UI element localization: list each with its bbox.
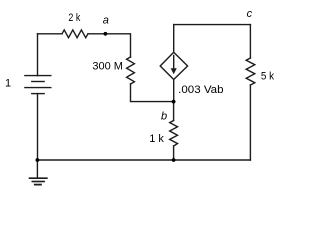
svg-text:300 M: 300 M [92, 60, 123, 72]
wire node a to 300M top corner [88, 34, 131, 57]
wire node c down to 5k [249, 25, 251, 58]
wire left vertical battery top [37, 34, 39, 76]
resistor R 2 k zigzag [62, 30, 88, 38]
wire node b to 1k top [173, 102, 175, 121]
wire 1k bottom to rail [173, 146, 175, 160]
wire top rail [174, 24, 251, 26]
svg-text:c: c [247, 8, 253, 20]
ground bar 3 [35, 184, 41, 186]
junction dot bottom middle [172, 158, 176, 162]
wire diamond bottom to node b [173, 80, 175, 102]
wire ground stem [36, 160, 38, 178]
arrow head inside source [171, 68, 177, 74]
battery plate long top [25, 75, 51, 77]
battery plate long lower [25, 87, 51, 89]
wire top rail to diamond top [173, 25, 175, 53]
dependent source diamond .003 Vab [160, 52, 187, 79]
resistor R 5 k zigzag [246, 58, 255, 85]
wire bottom rail [37, 159, 250, 161]
svg-text:1: 1 [5, 78, 11, 90]
svg-text:2 k: 2 k [68, 12, 80, 24]
battery plate short bottom [32, 93, 44, 95]
resistor R 300 M zigzag [127, 57, 135, 84]
node a junction dot [104, 32, 108, 36]
arrow shaft inside source [173, 56, 175, 70]
wire 5k bottom to rail [249, 85, 251, 160]
resistor R 1 k zigzag [170, 121, 178, 147]
wire battery bottom to ground rail [37, 94, 39, 160]
svg-text:1 k: 1 k [149, 133, 164, 145]
svg-text:a: a [103, 14, 109, 26]
ground bar 1 [30, 177, 47, 179]
wire 300M bottom to node b [131, 84, 174, 102]
wire top-left horizontal [38, 33, 63, 35]
svg-text:5 k: 5 k [261, 70, 275, 82]
ground bar 2 [32, 181, 44, 183]
svg-text:b: b [161, 110, 167, 122]
junction dot bottom left [36, 158, 40, 162]
node b junction dot [172, 100, 176, 104]
svg-text:.003 Vab: .003 Vab [178, 84, 223, 96]
battery plate short upper [32, 81, 44, 83]
